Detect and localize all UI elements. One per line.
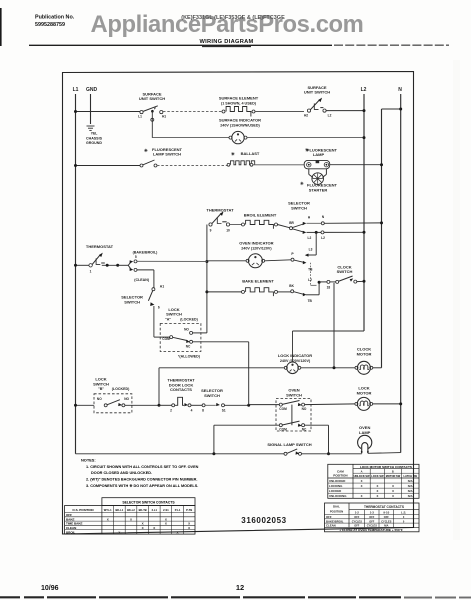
svg-text:316002053: 316002053 [241,516,286,525]
svg-text:1-3: 1-3 [370,511,375,515]
svg-text:UNLOCKED: UNLOCKED [329,479,345,483]
svg-text:THERMOSTAT: THERMOSTAT [86,244,114,249]
svg-text:+ CLOSE AT OVEN TEMPERATURE +: + CLOSE AT OVEN TEMPERATURE + 550°F [339,528,403,532]
svg-text:L2: L2 [321,236,325,240]
svg-text:1-2: 1-2 [355,511,360,515]
svg-text:2-L1: 2-L1 [152,508,158,512]
svg-text:DOOR CLOSED AND UNLOCKED.: DOOR CLOSED AND UNLOCKED. [91,471,152,475]
svg-text:CONTACTS: CONTACTS [170,387,192,392]
svg-text:2: 2 [170,409,172,413]
svg-text:5995288759: 5995288759 [35,22,65,28]
svg-text:LOCK INDICATOR: LOCK INDICATOR [278,353,312,358]
svg-text:B: B [392,469,394,473]
svg-text:POSITION: POSITION [333,474,347,478]
svg-text:9: 9 [210,229,212,233]
svg-text:WT-L1: WT-L1 [104,508,112,512]
svg-text:X: X [376,484,378,488]
svg-text:BR: BR [289,221,294,225]
svg-text:A: A [361,469,363,473]
svg-text:YEL: YEL [91,132,98,136]
svg-text:NC: NC [186,345,191,349]
svg-text:18: 18 [327,286,331,290]
svg-text:L2: L2 [361,87,367,93]
svg-text:LOCK MOTOR SWITCH CONTACTS: LOCK MOTOR SWITCH CONTACTS [360,465,412,469]
svg-text:COM: COM [279,407,287,411]
svg-text:X: X [361,479,363,483]
svg-text:MOTOR SW: MOTOR SW [386,474,401,478]
svg-text:N/A: N/A [408,489,413,493]
svg-text:(CLEAN): (CLEAN) [134,278,150,282]
svg-text:N: N [398,87,402,93]
svg-text:4: 4 [191,409,193,413]
svg-text:DIAL: DIAL [333,504,340,508]
svg-text:X: X [376,489,378,493]
svg-text:BK-L2: BK-L2 [127,508,135,512]
svg-text:MOTOR: MOTOR [357,390,372,395]
svg-text:X: X [188,526,190,530]
svg-text:X: X [107,517,109,521]
svg-text:MOTOR: MOTOR [357,351,372,356]
svg-text:TB: TB [308,299,313,303]
svg-text:L.S.: L.S. [401,511,406,515]
svg-text:BROIL ELEMENT: BROIL ELEMENT [244,213,277,218]
svg-text:X: X [153,526,155,530]
svg-text:L1: L1 [138,115,142,119]
svg-text:UNIT SWITCH: UNIT SWITCH [139,96,165,101]
svg-text:POSITION: POSITION [330,510,343,514]
svg-text:BK-L1: BK-L1 [116,508,124,512]
svg-text:8: 8 [202,409,204,413]
svg-text:10/96: 10/96 [41,585,59,592]
svg-text:NOTES:: NOTES: [81,458,96,463]
svg-text:LOCKING: LOCKING [329,484,343,488]
svg-text:STARTER: STARTER [309,187,328,192]
svg-text:LAMP SWITCH: LAMP SWITCH [153,152,181,157]
svg-text:TB: TB [308,267,313,271]
svg-text:UNIT SWITCH: UNIT SWITCH [304,90,330,95]
svg-text:X: X [392,494,394,498]
svg-text:L2: L2 [308,236,312,240]
svg-text:10: 10 [226,229,230,233]
svg-text:(1 SHOWN, 4 USED): (1 SHOWN, 4 USED) [221,101,257,105]
svg-text:X: X [177,530,179,534]
svg-text:THERMOSTAT CONTACTS: THERMOSTAT CONTACTS [364,505,404,509]
svg-text:NO: NO [97,397,102,401]
svg-text:OVEN INDICATOR: OVEN INDICATOR [239,241,273,246]
svg-text:X: X [392,489,394,493]
svg-text:BALLAST: BALLAST [241,151,260,156]
svg-text:6: 6 [158,306,160,310]
svg-text:(LOCKED): (LOCKED) [112,387,130,391]
svg-text:UNLOCK SW: UNLOCK SW [354,474,371,478]
svg-text:CLEAN: CLEAN [326,524,336,528]
svg-text:GROUND: GROUND [86,141,102,145]
svg-text:SWITCH: SWITCH [337,269,353,274]
svg-text:Publication No.: Publication No. [35,15,75,21]
svg-text:NC: NC [302,427,307,431]
svg-text:A1: A1 [160,285,164,289]
svg-text:N/A: N/A [408,479,413,483]
svg-text:240V (120V/120V): 240V (120V/120V) [241,246,272,250]
svg-text:L2: L2 [328,114,332,118]
svg-text:UNLOCKING: UNLOCKING [329,494,347,498]
svg-text:SWITCH: SWITCH [286,392,302,397]
svg-text:S1: S1 [222,409,226,413]
svg-text:H1: H1 [162,115,166,119]
svg-text:L3: L3 [309,248,313,252]
svg-text:BROIL: BROIL [66,530,76,534]
svg-text:X: X [130,517,132,521]
svg-text:1: 1 [90,270,92,274]
svg-text:AppliancePartsPros.com: AppliancePartsPros.com [91,11,364,38]
svg-text:X: X [392,484,394,488]
svg-text:LOCKED: LOCKED [329,489,341,493]
svg-text:SWITCH: SWITCH [204,393,220,398]
svg-text:"B": "B" [98,387,104,391]
svg-text:NO: NO [124,397,129,401]
svg-text:BK-TB: BK-TB [139,508,147,512]
svg-text:"A": "A" [165,318,171,322]
svg-text:COM: COM [279,427,287,431]
svg-text:SELECTOR SWITCH CONTACTS: SELECTOR SWITCH CONTACTS [122,501,175,505]
svg-text:LOCK SW: LOCK SW [371,474,384,478]
svg-text:12: 12 [236,583,244,592]
svg-text:X: X [142,526,144,530]
svg-text:P-TB: P-TB [186,508,192,512]
svg-text:*(ALLOWED): *(ALLOWED) [178,355,201,359]
svg-text:SWITCH: SWITCH [124,299,140,304]
svg-text:GND: GND [86,87,98,93]
svg-text:P-L1: P-L1 [175,508,181,512]
svg-text:LAMP: LAMP [313,152,325,157]
svg-text:5: 5 [135,255,137,259]
svg-text:COM: COM [162,337,170,341]
svg-text:SWITCH: SWITCH [93,381,109,386]
svg-text:X: X [165,522,167,526]
svg-text:240V (1SHOWN/USED): 240V (1SHOWN/USED) [220,123,260,127]
svg-text:(LOCKED): (LOCKED) [180,318,198,322]
svg-text:L2: L2 [308,278,312,282]
svg-text:H2: H2 [304,114,308,118]
svg-text:SURFACE INDICATOR: SURFACE INDICATOR [219,118,261,123]
svg-text:NO: NO [184,328,189,332]
svg-text:L1: L1 [73,87,79,93]
svg-text:2. (WT)″ DENOTES BACKGUARD CO: 2. (WT)″ DENOTES BACKGUARD CONNECTOR PIN… [86,477,197,481]
svg-text:SURFACE ELEMENT: SURFACE ELEMENT [219,96,259,101]
svg-text:BAKE ELEMENT: BAKE ELEMENT [242,279,274,284]
svg-text:SWITCH: SWITCH [291,205,307,210]
svg-text:WIRING DIAGRAM: WIRING DIAGRAM [199,39,253,45]
svg-text:NO: NO [302,407,307,411]
svg-text:THERMOSTAT: THERMOSTAT [206,208,234,213]
svg-text:2-S1: 2-S1 [163,508,169,512]
svg-text:9-10: 9-10 [383,511,389,515]
svg-text:LATCH SW: LATCH SW [403,474,417,478]
svg-text:X: X [361,484,363,488]
svg-text:X: X [376,494,378,498]
svg-text:BK: BK [289,284,294,288]
svg-text:O.S. POSITION: O.S. POSITION [72,508,93,512]
svg-text:X: X [361,494,363,498]
svg-text:1. CIRCUIT SHOWN WITH ALL CON: 1. CIRCUIT SHOWN WITH ALL CONTROLS SET T… [86,465,199,469]
svg-text:N/A: N/A [408,494,413,498]
svg-text:SWITCH: SWITCH [166,312,182,317]
svg-text:CHASSIS: CHASSIS [86,137,103,141]
svg-text:LAMP: LAMP [359,430,371,435]
svg-text:X: X [118,530,120,534]
svg-text:N/A: N/A [408,484,413,488]
svg-text:SIGNAL LAMP SWITCH: SIGNAL LAMP SWITCH [267,442,311,447]
svg-text:3. COMPONENTS WITH ✳ DO NOT A: 3. COMPONENTS WITH ✳ DO NOT APPEAR ON AL… [86,483,198,488]
svg-text:✳: ✳ [300,181,304,186]
